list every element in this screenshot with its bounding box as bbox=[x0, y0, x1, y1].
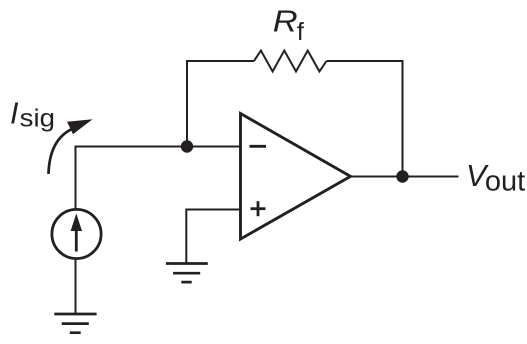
wire: top feedback wire right segment and down to output node bbox=[327, 61, 403, 177]
node B: output node dot bbox=[396, 170, 408, 182]
svg-text:R: R bbox=[273, 5, 298, 39]
op-amp minus label bbox=[250, 145, 267, 148]
wire: non-inverting input wire bbox=[186, 210, 240, 265]
svg-text:sig: sig bbox=[20, 104, 55, 132]
op-amp plus label bbox=[251, 207, 266, 210]
svg-text:f: f bbox=[297, 18, 304, 46]
wire: horizontal input wire to op-amp inverting input bbox=[75, 146, 241, 148]
op-amp U1 bbox=[241, 114, 351, 240]
svg-text:out: out bbox=[485, 166, 525, 198]
ground: below current source bbox=[54, 313, 96, 316]
current source Isig bbox=[52, 209, 101, 258]
wire: from current source down to ground bbox=[75, 259, 77, 315]
wire: top feedback wire left segment bbox=[186, 60, 254, 62]
ground: at op-amp non-inverting input bbox=[166, 262, 208, 265]
resistor Rf bbox=[254, 51, 327, 72]
svg-text:I: I bbox=[10, 97, 19, 131]
wire: left vertical from input node corner down to current source bbox=[75, 147, 77, 210]
wire: output wire from op-amp apex to Vout bbox=[351, 176, 459, 178]
current direction arrow (curved) bbox=[49, 129, 74, 175]
node A: summing junction dot bbox=[181, 140, 193, 152]
wire: vertical from summing node up to feedback branch bbox=[186, 60, 188, 147]
